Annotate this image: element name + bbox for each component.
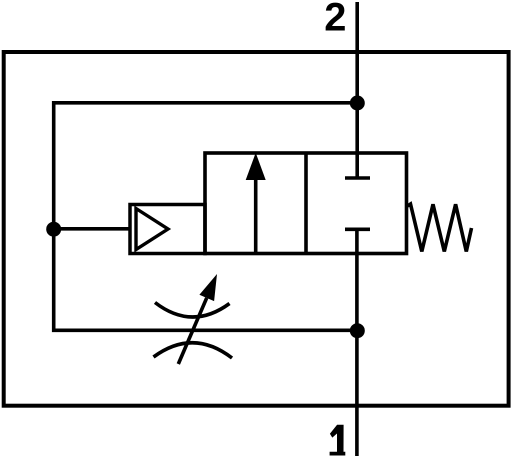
svg-text:2: 2 <box>324 0 346 40</box>
